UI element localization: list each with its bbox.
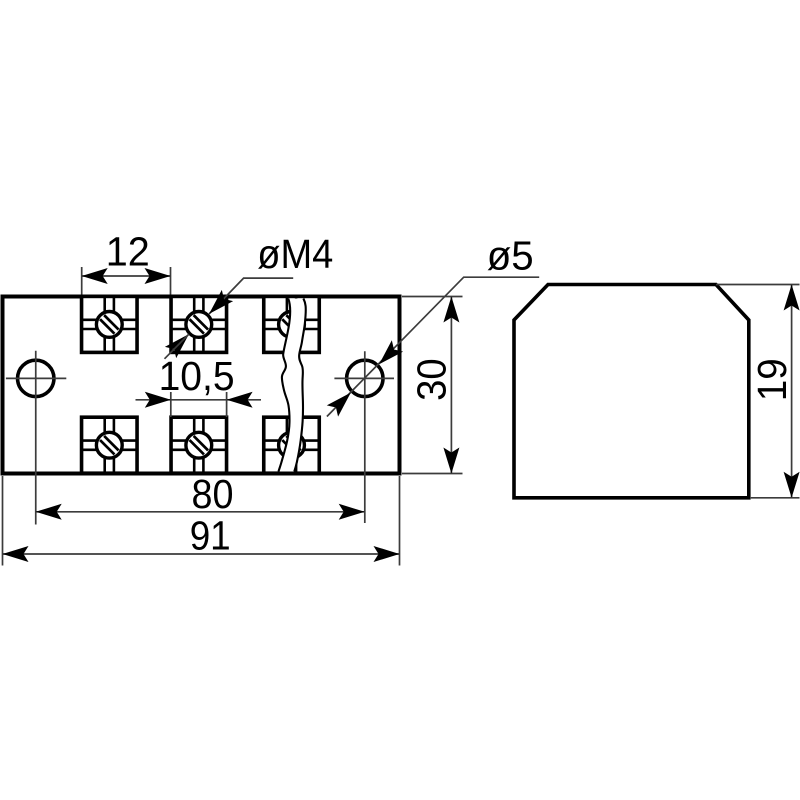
dim 10,5 arrowhead right (points left): [227, 392, 253, 408]
dim 30 dimension line: [450, 297, 452, 474]
label o5 arrowhead lower: [327, 387, 357, 417]
plate outline (top view of terminal strip): [3, 297, 400, 474]
dim 12 extension line left: [81, 267, 83, 295]
dim 10,5 dimension line: [136, 399, 262, 401]
svg-text:19: 19: [749, 358, 795, 401]
mounting hole left (diameter 5): [18, 360, 54, 396]
dim 30 value (rotated): [408, 358, 454, 401]
dim 19 arrowhead bottom: [784, 472, 800, 498]
dim 30 extension line top: [402, 296, 463, 298]
label oM4 leader tail: [165, 334, 189, 359]
dim 12 extension line right: [170, 267, 172, 295]
dim 12 dimension line: [82, 275, 171, 277]
dim 91 extension line right: [399, 476, 401, 566]
dim 12 arrowhead right: [145, 268, 171, 284]
center line horizontal, left hole: [6, 377, 66, 379]
dim 91 extension line left: [2, 476, 4, 566]
center line vertical, left hole (extends to dim 80): [35, 351, 37, 525]
svg-text:80: 80: [192, 471, 234, 517]
svg-text:øM4: øM4: [257, 231, 333, 277]
label oM4 arrowhead lower: [165, 328, 195, 358]
mounting hole right (diameter 5): [347, 360, 383, 396]
dim 80 arrowhead right: [339, 504, 365, 520]
svg-text:30: 30: [408, 358, 454, 401]
break band (white interruption of the view): [279, 299, 306, 472]
dim 30 arrowhead bottom: [443, 448, 459, 474]
dim 19 extension line bottom: [751, 497, 800, 499]
dim 80 arrowhead left: [36, 504, 62, 520]
dim 30 extension line bottom: [402, 473, 463, 475]
break line right (wavy): [294, 299, 305, 472]
terminal screw T1 (top row, col 1): [82, 296, 138, 352]
terminal screw T5 (bottom row, col 2): [171, 417, 227, 473]
dim 19 value (rotated): [749, 358, 795, 401]
dim 19 extension line top: [716, 284, 800, 286]
dim 10,5 extension line right: [226, 392, 228, 417]
terminal screw T4 (bottom row, col 1): [82, 417, 138, 473]
svg-text:91: 91: [190, 513, 231, 559]
center line horizontal, right hole: [334, 377, 394, 379]
label oM4 arrowhead upper: [203, 290, 233, 320]
dim 30 arrowhead top: [443, 297, 459, 323]
dim 91 dimension line: [3, 553, 400, 555]
terminal screw T2 (top row, col 2): [171, 296, 227, 352]
dim 91 arrowhead right: [374, 546, 400, 562]
dim 80 dimension line: [36, 511, 365, 513]
side view outline (chamfered block): [514, 285, 749, 498]
terminal screw T3 (top row, col 3): [264, 296, 320, 352]
center line vertical, right hole (extends to dim 80): [364, 351, 366, 523]
dim 91 arrowhead left: [3, 546, 29, 562]
svg-text:ø5: ø5: [487, 233, 534, 279]
terminal screw T6 (bottom row, col 3): [264, 417, 320, 473]
dim 12 arrowhead left: [82, 268, 108, 284]
dim 10,5 arrowhead left (points right): [145, 392, 171, 408]
break line left (wavy): [279, 299, 291, 472]
label o5 arrowhead upper: [373, 340, 403, 370]
dim 19 dimension line: [791, 285, 793, 498]
dim 10,5 extension line left: [170, 392, 172, 417]
svg-text:12: 12: [106, 228, 150, 274]
label o5 leader line (through right hole): [327, 277, 539, 416]
dim 19 arrowhead top: [784, 285, 800, 311]
label oM4 leader line: [209, 278, 293, 314]
svg-text:10,5: 10,5: [159, 353, 235, 399]
